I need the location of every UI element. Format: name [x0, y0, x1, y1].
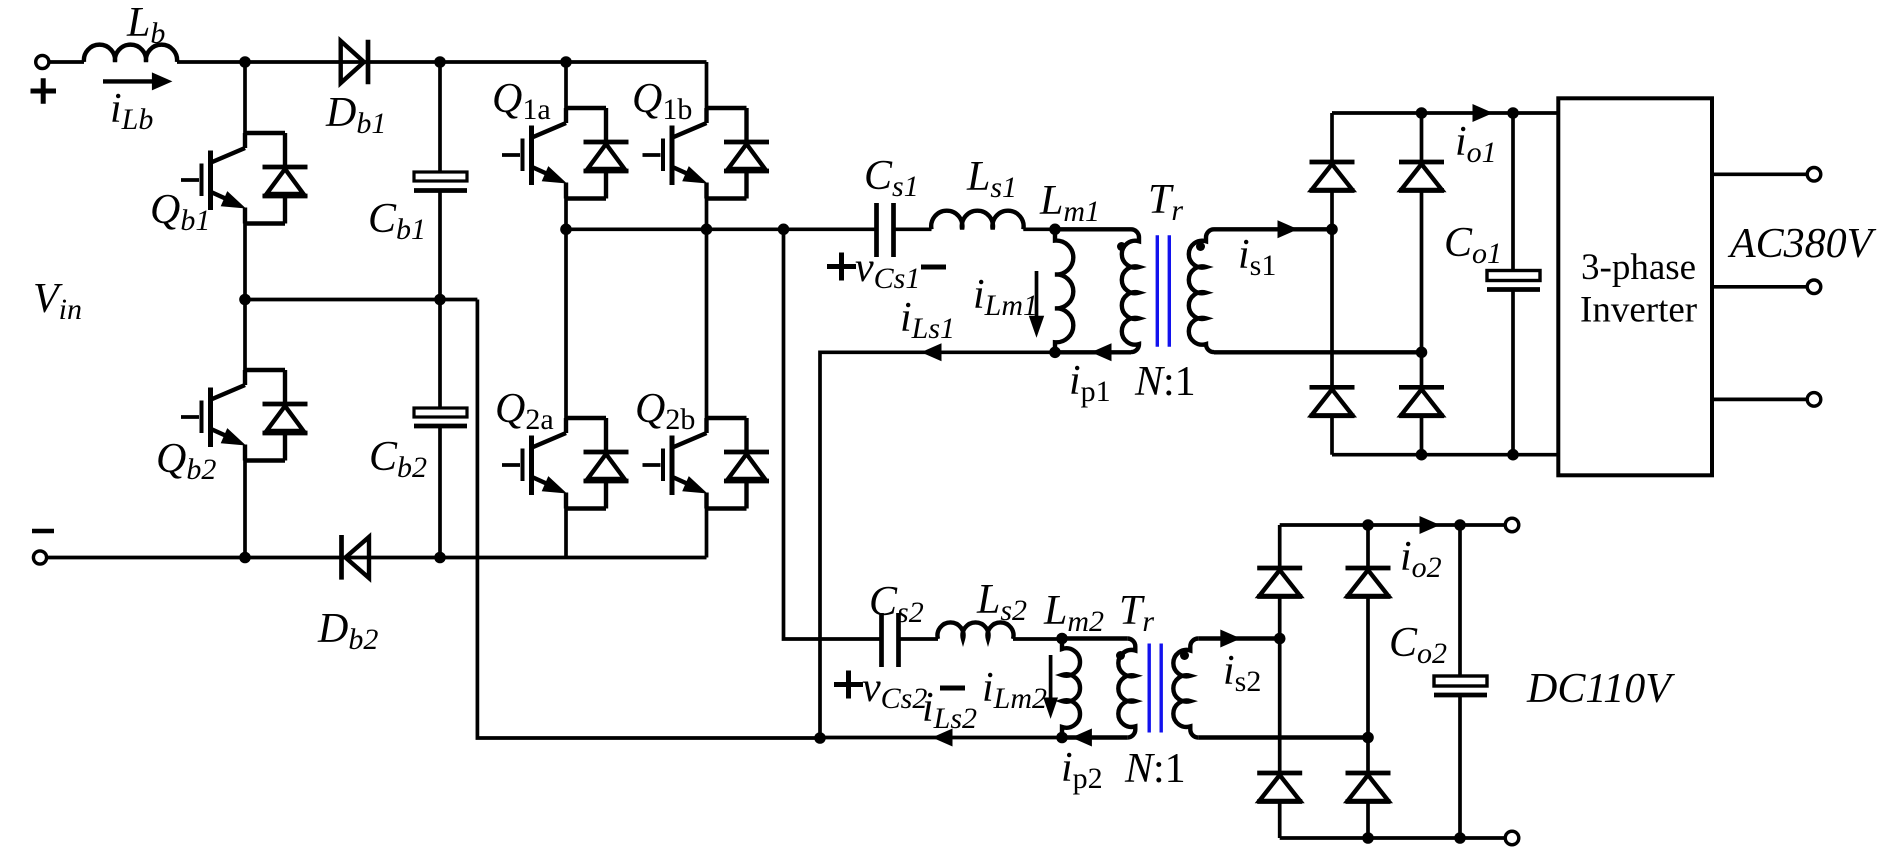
node rect2 top Co2: [1454, 519, 1466, 531]
return wire A vertical: [477, 300, 820, 739]
node Lm1 bottom: [1049, 347, 1061, 359]
plus sign Vin: [31, 78, 57, 103]
node Lm2 bottom: [1056, 732, 1068, 744]
inverter output wire 3: [1712, 398, 1808, 402]
diode rect1 upper-right: [1399, 162, 1444, 191]
transistor Q1a: [502, 108, 629, 199]
wire secondary1 top to rectifier: [1214, 227, 1332, 231]
input terminal +: [36, 55, 49, 68]
arrow iLs2: [932, 729, 953, 747]
wire Ls1 to Lm1 node: [1023, 227, 1055, 231]
node bottom rail Qb2: [239, 552, 251, 564]
node mid rail tank2 takeoff: [778, 224, 790, 236]
capacitor Cb1: [414, 172, 467, 191]
wire Co1 top: [1511, 113, 1515, 271]
minus sign Vin: [32, 529, 54, 534]
wire Q2a collector: [564, 229, 568, 418]
transformer Tr secondary 2: [1173, 639, 1198, 738]
node Lm1 top: [1049, 224, 1061, 236]
node mid rail b: [701, 224, 713, 236]
node top rail Q1a: [560, 56, 572, 68]
rectifier2 right leg: [1366, 525, 1370, 838]
rect2 top rail: [1280, 523, 1506, 527]
wire secondary1 bottom to rectifier: [1214, 350, 1422, 354]
svg-text:DC110V: DC110V: [1526, 666, 1675, 712]
mid rail wire: [566, 227, 875, 231]
wire Cs1 to Ls1: [894, 227, 932, 231]
node rect2 bottom right leg: [1362, 832, 1374, 844]
node caps mid: [434, 294, 446, 306]
wire iLs2 return: [820, 736, 1062, 740]
arrow ip1: [1091, 343, 1112, 361]
node rect2 input left: [1274, 633, 1286, 645]
diode rect1 lower-right: [1399, 387, 1444, 416]
rect2 bottom rail: [1280, 836, 1506, 840]
rectifier2 left leg: [1278, 525, 1282, 838]
capacitor Cs2: [882, 613, 899, 667]
node rect2 top right leg: [1362, 519, 1374, 531]
3-phase inverter box: [1558, 98, 1712, 475]
svg-text:N:1: N:1: [1124, 746, 1186, 792]
node rect2 bottom Co2: [1454, 832, 1466, 844]
input terminal -: [33, 551, 46, 564]
arrow iLm2: [1049, 655, 1053, 700]
wire Lm1 node to primary1: [1055, 227, 1131, 231]
node boost mid: [239, 294, 251, 306]
wire Q1b emitter to mid rail: [705, 199, 709, 230]
capacitor Co1: [1487, 271, 1540, 290]
node iLs1/iLs2 junction: [814, 732, 826, 744]
secondary1 polarity dot: [1196, 242, 1205, 251]
rect1 bottom rail: [1332, 453, 1558, 457]
wire Ls2 to Lm2 node: [1013, 637, 1062, 641]
terminal DC-: [1505, 831, 1519, 845]
wire Q2a emitter to bottom rail: [564, 509, 568, 558]
wire primary1 bottom with arrow ip1: [1055, 350, 1131, 354]
inductor Lm2: [1062, 639, 1080, 738]
transformer Tr primary 2: [1118, 639, 1135, 738]
svg-text:AC380V: AC380V: [1727, 221, 1877, 267]
node mid rail a: [560, 224, 572, 236]
inverter output wire 1: [1712, 172, 1808, 176]
minus vCs1: [921, 265, 946, 270]
wire Lm2 node to primary2: [1062, 636, 1127, 640]
wire Lb to top rail: [177, 60, 707, 64]
rectifier1 right leg: [1420, 113, 1424, 455]
arrow iLb: [103, 79, 155, 83]
wire Q1a collector: [564, 62, 568, 108]
node bottom rail Cb2: [434, 552, 446, 564]
node Lm2 top: [1056, 633, 1068, 645]
inductor Ls2: [938, 622, 1014, 639]
inverter output wire 2: [1712, 285, 1808, 289]
node rect1 bottom Co1: [1507, 449, 1519, 461]
wire Q2b emitter to bottom rail: [705, 509, 709, 558]
rectifier1 left leg: [1330, 113, 1334, 455]
node rect1 bottom right leg: [1416, 449, 1428, 461]
primary2 polarity dot: [1116, 651, 1125, 660]
wire Qb1 emitter to mid node: [243, 224, 247, 300]
wire Cs2 to Ls2: [899, 637, 939, 641]
svg-text:Inverter: Inverter: [1580, 290, 1697, 331]
transformer Tr secondary 1: [1189, 229, 1214, 352]
inductor Ls1: [931, 211, 1023, 230]
secondary2 polarity dot: [1180, 651, 1189, 660]
transformer Tr primary 1: [1122, 229, 1139, 352]
transistor Q2a: [502, 418, 629, 509]
inductor Lb: [84, 45, 177, 62]
rect1 top rail: [1332, 111, 1558, 115]
terminal out2: [1807, 280, 1821, 294]
wire Cb2 top: [438, 300, 442, 409]
transistor Q1b: [643, 108, 770, 199]
node top rail / Qb1: [239, 56, 251, 68]
transformer core 2: [1149, 644, 1161, 733]
arrow iLs1: [921, 343, 942, 361]
wire Cb2 bottom: [438, 426, 442, 558]
wire top rail corner into Q1b: [705, 62, 709, 108]
node rect1 input left: [1326, 224, 1338, 236]
terminal out1: [1807, 168, 1821, 182]
node rect1 input right: [1416, 347, 1428, 359]
node top rail / Cb1: [434, 56, 446, 68]
terminal out3: [1807, 393, 1821, 407]
arrow io1: [1473, 104, 1494, 122]
wire iLs1 return: [820, 352, 1055, 738]
diode rect2 lower-left: [1257, 773, 1302, 802]
transistor Qb1: [181, 133, 308, 224]
terminal DC+: [1505, 518, 1519, 532]
plus vCs1: [827, 253, 856, 281]
svg-text:3-phase: 3-phase: [1581, 247, 1696, 288]
diode rect2 upper-left: [1257, 568, 1302, 597]
wire Co1 bottom: [1511, 290, 1515, 455]
capacitor Co2: [1434, 676, 1487, 695]
arrow ip2: [1071, 729, 1092, 747]
wire Qb1 collector: [243, 62, 247, 133]
node rect1 top right leg: [1416, 107, 1428, 119]
diode Db1: [341, 40, 368, 85]
arrow is1: [1278, 220, 1299, 238]
wire secondary2 top to rectifier: [1198, 636, 1279, 640]
wire Cb1 top: [438, 62, 442, 172]
svg-text:N:1: N:1: [1134, 359, 1196, 405]
node rect2 input right: [1362, 732, 1374, 744]
wire caps mid rail: [245, 298, 477, 302]
diode rect2 upper-right: [1346, 568, 1391, 597]
wire primary2 bottom with arrow ip2: [1062, 735, 1127, 739]
wire mid rail down to tank2: [784, 229, 881, 639]
node rect1 top Co1: [1507, 107, 1519, 119]
minus vCs2: [940, 686, 965, 691]
wire Qb2 emitter to bottom rail: [243, 461, 247, 558]
bottom rail wire: [47, 556, 707, 560]
wire Q2b collector: [705, 229, 709, 418]
capacitor Cs1: [877, 203, 894, 257]
primary1 polarity dot: [1117, 242, 1126, 251]
wire Q1a emitter to mid rail: [564, 199, 568, 230]
wire Cb1 bottom: [438, 191, 442, 300]
plus vCs2: [834, 671, 863, 699]
wire Co2 top: [1458, 525, 1462, 676]
diode rect1 lower-left: [1310, 387, 1355, 416]
arrow iLm1: [1035, 271, 1039, 319]
arrow is2: [1220, 630, 1241, 648]
arrow io2: [1420, 516, 1441, 534]
capacitor Cb2: [414, 408, 467, 426]
wire mid node to Qb2: [243, 300, 247, 371]
transistor Q2b: [643, 418, 770, 509]
transistor Qb2: [181, 370, 308, 461]
wire secondary2 bottom to rectifier: [1198, 735, 1368, 739]
transformer core 1: [1157, 235, 1169, 346]
wire input to Lb: [49, 60, 84, 64]
diode rect2 lower-right: [1346, 773, 1391, 802]
wire Co2 bottom: [1458, 695, 1462, 838]
inductor Lm1: [1055, 229, 1073, 353]
diode rect1 upper-left: [1310, 162, 1355, 191]
diode Db2: [342, 535, 370, 580]
